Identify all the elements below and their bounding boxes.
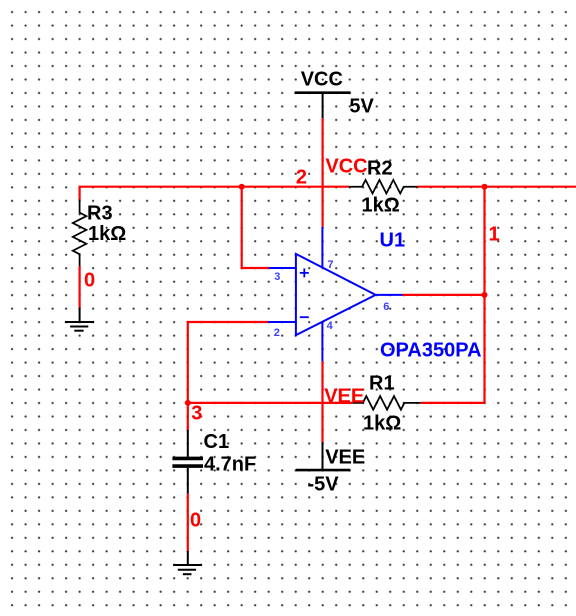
- op-amp plus marker: [300, 268, 309, 277]
- svg-text:3: 3: [274, 271, 280, 283]
- wire op-amp pin 4 to VEE: [321, 361, 323, 442]
- svg-text:VEE: VEE: [325, 447, 365, 469]
- junction node 1 top: [482, 184, 488, 190]
- svg-text:0: 0: [190, 510, 201, 532]
- junction node 1 at output: [482, 292, 488, 298]
- resistor R2: [349, 180, 417, 194]
- wire C1 to ground: [187, 494, 189, 551]
- resistor R1: [352, 396, 420, 410]
- pin stub 6: [376, 294, 403, 296]
- wire node 2 horizontal (R3 top to R2 left): [80, 187, 350, 200]
- wire node 2 branch to op-amp pin 3: [242, 187, 269, 268]
- wire node 1 (R2 right to right edge): [417, 186, 576, 188]
- svg-text:1kΩ: 1kΩ: [362, 195, 400, 217]
- junction node 3: [185, 400, 191, 406]
- svg-text:U1: U1: [380, 230, 406, 252]
- wire node 1 vertical: [483, 187, 485, 403]
- wire op-amp output to node 1: [403, 294, 485, 296]
- svg-text:4: 4: [327, 320, 334, 332]
- op-amp U1 triangle: [296, 254, 376, 335]
- wire node 1 bottom to R1 right: [421, 402, 485, 404]
- ground under R3: [65, 308, 94, 331]
- svg-text:2: 2: [274, 327, 280, 339]
- svg-text:1kΩ: 1kΩ: [88, 223, 126, 245]
- svg-text:7: 7: [327, 259, 333, 271]
- svg-text:1kΩ: 1kΩ: [363, 413, 401, 435]
- power symbol VCC: [295, 93, 351, 119]
- svg-text:2: 2: [296, 167, 307, 189]
- pin stub 7: [321, 227, 323, 267]
- ground under C1: [173, 551, 202, 574]
- svg-text:VCC: VCC: [301, 69, 343, 91]
- op-amp minus marker: [300, 316, 309, 318]
- pin stub 2: [268, 321, 296, 323]
- svg-text:R1: R1: [369, 373, 395, 395]
- svg-text:C1: C1: [204, 431, 230, 453]
- pin stub 3: [269, 267, 296, 269]
- junction node 2 (branch to pin 3): [239, 184, 245, 190]
- svg-text:6: 6: [383, 301, 389, 313]
- wire R3 to ground: [78, 266, 80, 308]
- svg-text:-5V: -5V: [308, 474, 340, 496]
- wire node 3 to C1: [187, 403, 189, 430]
- power symbol VEE: [296, 442, 351, 470]
- wire op-amp pin 2 to node 3: [188, 322, 268, 403]
- capacitor C1: [172, 430, 203, 494]
- svg-text:0: 0: [84, 270, 95, 292]
- resistor R3: [73, 200, 87, 267]
- svg-text:3: 3: [191, 403, 202, 425]
- svg-text:1: 1: [489, 224, 500, 246]
- svg-text:R2: R2: [367, 158, 393, 180]
- svg-text:VEE: VEE: [324, 386, 364, 408]
- svg-text:5V: 5V: [349, 95, 374, 117]
- svg-text:OPA350PA: OPA350PA: [380, 340, 482, 362]
- svg-text:VCC: VCC: [325, 156, 367, 178]
- svg-text:4.7nF: 4.7nF: [204, 454, 256, 476]
- wire node 3 horizontal (junction to R1 left): [188, 402, 352, 404]
- pin stub 4: [321, 322, 323, 361]
- wire VCC to op-amp pin 7: [322, 118, 324, 227]
- svg-text:R3: R3: [87, 203, 113, 225]
